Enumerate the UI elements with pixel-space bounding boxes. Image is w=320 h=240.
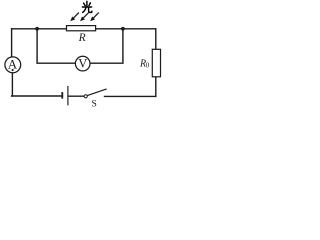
light arrow 1 bbox=[70, 13, 79, 22]
svg-text:S: S bbox=[91, 100, 96, 109]
wire voltmeter right branch bbox=[90, 29, 123, 63]
ammeter A bbox=[5, 57, 21, 73]
switch S blade bbox=[87, 89, 106, 96]
wire switch to bottom right corner bbox=[105, 95, 156, 97]
battery cell: long thin positive plate bbox=[67, 86, 69, 105]
wire right vertical lower bbox=[155, 77, 157, 97]
battery cell: short thick negative plate bbox=[61, 92, 63, 99]
wire bottom left segment bbox=[12, 95, 62, 97]
node junction dot left bbox=[35, 27, 39, 31]
light arrow 2 bbox=[80, 13, 89, 22]
resistor R0 bbox=[152, 49, 160, 77]
wire battery to switch bbox=[69, 95, 84, 97]
light label 光 (drawn strokes) bbox=[82, 1, 92, 12]
wire right vertical upper bbox=[155, 29, 157, 50]
wire top right segment bbox=[96, 28, 156, 30]
svg-text:R: R bbox=[78, 32, 86, 44]
wire top left segment bbox=[12, 28, 67, 30]
light arrow 3 bbox=[90, 13, 99, 22]
resistor R (photoresistor box) bbox=[67, 26, 96, 31]
switch S pivot circle bbox=[84, 95, 87, 98]
svg-text:V: V bbox=[78, 56, 87, 70]
wire voltmeter left branch bbox=[37, 29, 75, 63]
wire left vertical upper bbox=[11, 29, 13, 57]
node junction dot right bbox=[121, 27, 125, 31]
wire left vertical lower bbox=[11, 73, 13, 96]
svg-text:0: 0 bbox=[146, 62, 150, 70]
voltmeter V bbox=[75, 56, 90, 71]
